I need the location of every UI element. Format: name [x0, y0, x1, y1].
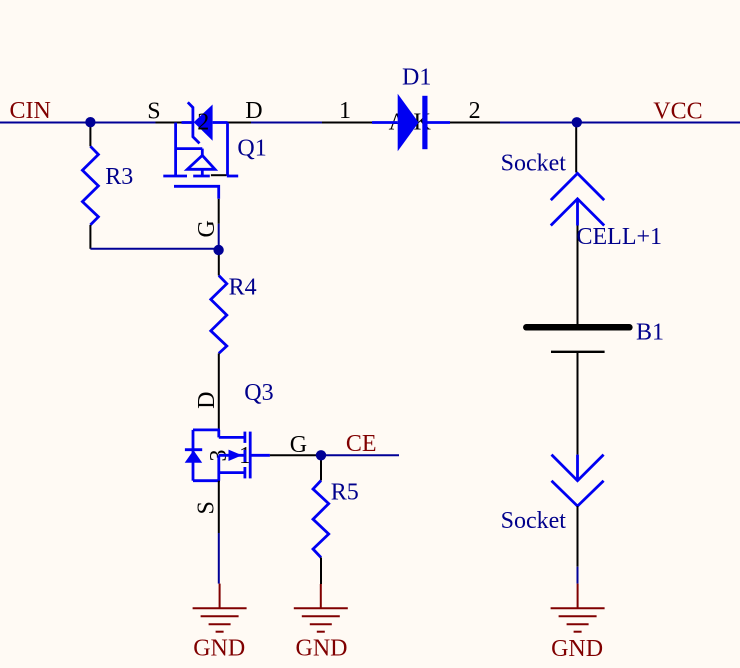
transistor Q3 S pin — [218, 481, 220, 533]
designator R3 — [105, 164, 133, 190]
diode D1 body — [372, 94, 450, 151]
socket S2 pin — [577, 506, 579, 567]
pin number 2 of Q1 — [197, 110, 209, 136]
svg-text:B1: B1 — [636, 320, 664, 346]
pin name D of Q3 (rotated) — [194, 392, 220, 409]
socket S2 body — [552, 455, 604, 507]
resistor R4 pin 1 — [218, 250, 220, 276]
designator B1 — [636, 320, 664, 346]
svg-text:GND: GND — [551, 636, 603, 662]
power label GND left — [193, 635, 245, 661]
transistor Q1 D pin — [228, 122, 252, 124]
wire Q1.G to node — [218, 224, 220, 251]
junction node gate/R4 — [213, 245, 223, 255]
svg-text:2: 2 — [469, 98, 481, 124]
pin number 3 of Q3 (rotated, under body) — [206, 450, 232, 462]
pin number 1 of D1 — [339, 98, 351, 124]
svg-text:D: D — [194, 392, 220, 409]
svg-text:S: S — [193, 501, 219, 514]
svg-text:G: G — [194, 220, 220, 237]
comment Socket bottom — [501, 508, 567, 534]
svg-text:G: G — [290, 432, 307, 458]
svg-text:D: D — [245, 98, 262, 124]
transistor Q1 body — [163, 102, 238, 199]
designator D1 — [402, 64, 431, 90]
wire battery to socket S2 — [577, 353, 579, 455]
junction node CIN/R3 — [85, 117, 95, 127]
pin label A of D1 (under diode) — [389, 110, 407, 136]
transistor Q3 G pin — [270, 454, 322, 456]
ground symbol right — [551, 584, 605, 632]
svg-text:R4: R4 — [229, 274, 257, 300]
net label CE — [346, 431, 377, 457]
pin name G of Q3 — [290, 432, 307, 458]
power label GND right — [551, 636, 603, 662]
wire CIN horizontal — [0, 122, 156, 124]
pin name D of Q1 — [245, 98, 262, 124]
designator Q3 — [244, 380, 273, 406]
resistor R3 pin 2 — [89, 225, 91, 249]
resistor R5 pin 2 — [320, 558, 322, 585]
pin name S of Q3 (rotated) — [193, 501, 219, 514]
transistor Q3 body — [185, 430, 270, 481]
svg-text:1: 1 — [339, 98, 351, 124]
wire socket S2 to GND — [577, 567, 579, 584]
svg-text:GND: GND — [296, 635, 348, 661]
svg-text:CIN: CIN — [10, 98, 51, 124]
svg-text:Socket: Socket — [501, 508, 567, 534]
resistor R4 body — [211, 276, 227, 354]
transistor Q1 G pin — [218, 199, 220, 224]
diode D1 pin 2 — [450, 122, 500, 124]
pin label K of D1 (under diode) — [414, 110, 432, 136]
pin name G of Q1 (rotated) — [194, 220, 220, 237]
pin number 1 of Q3 (under body) — [239, 443, 251, 469]
svg-text:CE: CE — [346, 431, 377, 457]
svg-text:R3: R3 — [105, 164, 133, 190]
pin number 2 of D1 — [469, 98, 481, 124]
junction node CE/R5 — [316, 450, 326, 460]
svg-text:S: S — [147, 98, 160, 124]
comment Socket top — [501, 150, 567, 176]
wire CE — [322, 454, 399, 456]
svg-text:R5: R5 — [331, 480, 359, 506]
wire Q3.S to GND — [218, 533, 220, 584]
designator Q1 — [237, 135, 266, 161]
svg-text:2: 2 — [197, 110, 209, 136]
junction node VCC/socket — [572, 117, 582, 127]
designator R4 — [229, 274, 257, 300]
svg-text:VCC: VCC — [653, 98, 702, 124]
pin name S of Q1 — [147, 98, 160, 124]
net label VCC — [653, 98, 702, 124]
resistor R4 pin 2 and Q3 D pin — [218, 353, 220, 430]
resistor R5 body — [313, 481, 329, 558]
ground symbol left — [193, 584, 247, 632]
resistor R3 body — [82, 146, 98, 225]
svg-text:Socket: Socket — [501, 150, 567, 176]
svg-text:D1: D1 — [402, 64, 431, 90]
svg-text:Q3: Q3 — [244, 380, 273, 406]
socket S1 pin — [575, 123, 577, 173]
power label GND middle — [296, 635, 348, 661]
diode D1 pin 1 — [322, 122, 372, 124]
svg-text:GND: GND — [193, 635, 245, 661]
transistor Q1 S pin — [156, 122, 182, 124]
battery B1 — [526, 327, 629, 352]
resistor R5 pin 1 — [320, 455, 322, 480]
resistor R3 pin 1 — [89, 123, 91, 147]
wire R3 to gate node — [90, 248, 219, 250]
svg-text:Q1: Q1 — [237, 135, 266, 161]
svg-text:CELL+1: CELL+1 — [577, 224, 663, 250]
wire D1.2 to VCC — [500, 122, 740, 124]
socket S1 body — [551, 173, 604, 225]
designator R5 — [331, 480, 359, 506]
net label CELL+1 — [577, 224, 663, 250]
ground symbol middle — [294, 584, 348, 632]
net label CIN — [10, 98, 51, 124]
wire Q1.D to D1.1 — [251, 122, 322, 124]
wire socket S1 to battery — [577, 226, 579, 325]
